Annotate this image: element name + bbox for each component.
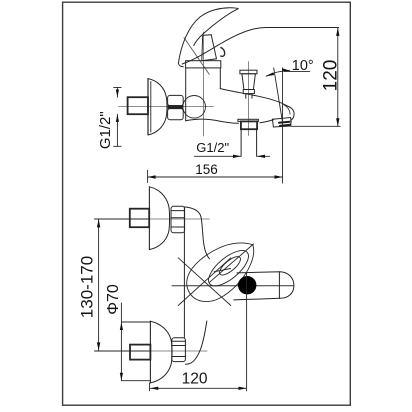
svg-text:120: 120 (320, 60, 341, 92)
escutcheon (side) (147, 79, 149, 135)
lever nose detail (221, 48, 225, 57)
wall pipe (side) (128, 97, 148, 114)
upper escutcheon (148, 187, 150, 250)
svg-text:G1/2": G1/2" (196, 140, 229, 155)
black knob dot (238, 276, 256, 294)
tailpiece pipe (241, 121, 257, 129)
spout underside (186, 119, 239, 123)
lever center tick (214, 269, 231, 272)
ball joint (183, 96, 206, 119)
centerline horizontal (wall pipe axis) (119, 106, 214, 108)
upper union nut (171, 206, 185, 233)
lower wall pipe (130, 345, 150, 360)
lever hub (202, 35, 217, 61)
handle grip capsule (234, 272, 294, 300)
body (side) (185, 68, 187, 121)
centerline vertical (diverter axis) (247, 62, 249, 136)
lever ellipse inner (217, 254, 243, 278)
svg-text:G1/2": G1/2" (97, 111, 114, 149)
svg-text:10°: 10° (292, 58, 314, 74)
centerline upper union (95, 218, 150, 220)
tailpiece flange (238, 119, 259, 121)
lever ellipse middle (203, 244, 254, 292)
lower union nut (172, 338, 186, 362)
union nut (side) (168, 95, 184, 105)
cartridge bonnet (186, 61, 221, 68)
upper wall pipe (130, 209, 149, 228)
lower escutcheon (149, 321, 151, 383)
X cross (178, 258, 231, 306)
dot stem line (246, 273, 248, 391)
body right edge lower (185, 321, 206, 364)
lever teardrop outer (187, 243, 254, 302)
border frame (63, 2, 351, 405)
svg-text:Φ70: Φ70 (105, 284, 122, 315)
lever axis line (210, 244, 254, 282)
spout outlet box (272, 118, 291, 128)
centerline middle (172, 285, 294, 287)
spout tip inner line (283, 104, 290, 114)
body right edge upper (185, 207, 210, 259)
centerline diagonal (lever axis) (184, 38, 209, 75)
centerline vertical (body axis) (202, 32, 204, 136)
svg-text:130-170: 130-170 (78, 256, 97, 318)
lever handle (side) (178, 8, 238, 63)
spout top surface (220, 89, 294, 121)
diverter knob (240, 70, 257, 74)
body left edge (183, 207, 185, 337)
centerline lower union (95, 350, 151, 352)
svg-text:156: 156 (195, 162, 218, 177)
outlet dark marks (279, 122, 290, 123)
svg-text:120: 120 (182, 371, 208, 388)
